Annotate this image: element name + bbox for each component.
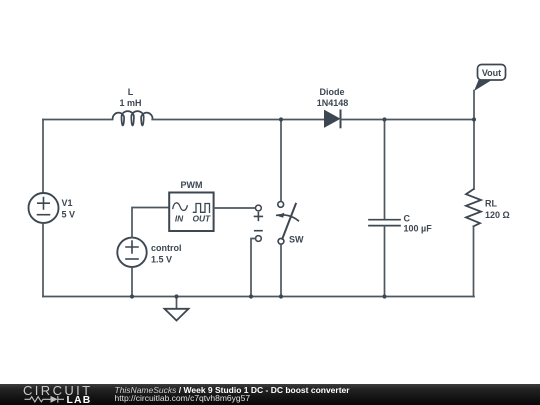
svg-text:100 µF: 100 µF bbox=[404, 224, 433, 234]
wire top rail right segment bbox=[341, 119, 475, 121]
voltage source V1 bbox=[29, 193, 59, 223]
svg-text:LAB: LAB bbox=[67, 395, 92, 405]
svg-text:control: control bbox=[151, 243, 182, 253]
wire Vout stem bbox=[473, 91, 475, 120]
svg-text:L: L bbox=[128, 87, 134, 97]
wire SW to bottom rail bbox=[280, 244, 282, 296]
svg-text:IN: IN bbox=[175, 214, 184, 224]
footer text bbox=[115, 386, 350, 404]
resistor RL bbox=[466, 189, 481, 226]
wire left branch upper bbox=[42, 120, 44, 194]
SW minus terminal bbox=[255, 231, 262, 242]
svg-text:V1: V1 bbox=[62, 198, 73, 208]
node top Vout junction bbox=[472, 117, 476, 121]
flag Vout bbox=[474, 65, 506, 92]
wire top rail to RL bbox=[473, 120, 475, 190]
wire left branch lower bbox=[42, 223, 44, 297]
SW plus terminal bbox=[255, 205, 263, 220]
svg-text:RL: RL bbox=[485, 199, 497, 209]
wire top rail to capacitor bbox=[384, 120, 386, 220]
svg-text:120 Ω: 120 Ω bbox=[485, 210, 510, 220]
PWM block U1 bbox=[169, 180, 213, 231]
ground bbox=[165, 297, 189, 321]
node bottom SW junction bbox=[279, 294, 283, 298]
wire bottom rail bbox=[43, 296, 474, 298]
svg-text:SW: SW bbox=[289, 235, 304, 245]
node top SW junction bbox=[279, 117, 283, 121]
node bottom ground junction bbox=[174, 294, 178, 298]
inductor L1 bbox=[113, 111, 153, 125]
wire PWM OUT to SW plus terminal bbox=[214, 207, 256, 209]
wire control to bottom rail bbox=[131, 267, 133, 297]
diode D1 1N4148 bbox=[325, 111, 341, 128]
svg-text:Diode: Diode bbox=[319, 87, 344, 97]
svg-text:5 V: 5 V bbox=[62, 210, 76, 220]
voltage source control bbox=[117, 238, 146, 267]
node bottom SW minus junction bbox=[249, 294, 253, 298]
label C value 100 µF bbox=[404, 214, 433, 234]
label V1 value 5 V bbox=[62, 198, 76, 220]
wire control to PWM IN bbox=[132, 208, 169, 238]
svg-text:OUT: OUT bbox=[192, 214, 211, 224]
wire top rail mid segment bbox=[152, 119, 325, 121]
svg-text:C: C bbox=[404, 214, 411, 224]
svg-text:1.5 V: 1.5 V bbox=[151, 255, 172, 265]
CircuitLab logo bbox=[21, 384, 101, 405]
capacitor C bbox=[369, 220, 400, 226]
label RL value 120 Ω bbox=[485, 199, 510, 221]
node bottom control junction bbox=[130, 294, 134, 298]
wire top rail to SW bbox=[280, 120, 282, 202]
svg-text:1N4148: 1N4148 bbox=[317, 98, 349, 108]
label L value 1 mH bbox=[119, 87, 141, 108]
svg-text:Vout: Vout bbox=[482, 68, 501, 78]
wire top rail left segment bbox=[43, 119, 113, 121]
wire capacitor to bottom rail bbox=[384, 226, 386, 297]
label Diode value 1N4148 bbox=[317, 87, 349, 108]
wire SW minus to bottom rail bbox=[251, 239, 256, 297]
label control value 1.5 V bbox=[151, 243, 182, 265]
wire RL to bottom rail bbox=[473, 226, 475, 296]
node top C junction bbox=[382, 117, 386, 121]
node bottom C junction bbox=[382, 294, 386, 298]
footer bar bbox=[0, 384, 540, 405]
svg-text:1 mH: 1 mH bbox=[119, 98, 141, 108]
svg-text:PWM: PWM bbox=[181, 180, 203, 190]
switch SW bbox=[276, 202, 298, 245]
